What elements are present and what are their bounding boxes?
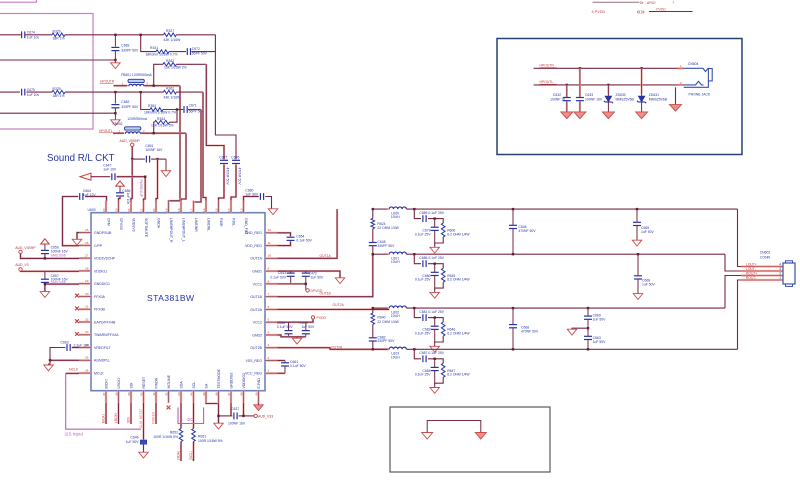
resistor R342 [163, 63, 176, 67]
node junction row3 C682 [114, 91, 116, 93]
svg-text:38: 38 [114, 392, 118, 396]
svg-text:0.1uF 25V: 0.1uF 25V [415, 233, 431, 237]
capacitor C680 [434, 264, 436, 272]
wire AUD_V3 to pin28 [21, 270, 80, 272]
svg-text:14: 14 [227, 208, 231, 212]
svg-text:C633: C633 [585, 93, 593, 97]
svg-text:GNDPSUB: GNDPSUB [94, 231, 112, 235]
svg-text:C685 0.1uF 25V: C685 0.1uF 25V [419, 211, 444, 215]
wire zobel2 upper [372, 308, 374, 313]
capacitor C657 [44, 271, 46, 279]
svg-text:C672: C672 [192, 47, 200, 51]
capacitor C472 [305, 271, 307, 272]
svg-text:I2S Input: I2S Input [65, 432, 84, 437]
capacitor C637 [233, 413, 235, 420]
capacitor C663 [587, 328, 589, 336]
svg-text:1: 1 [779, 276, 781, 280]
wire pin5 VCC2 row [278, 319, 314, 322]
node junction ZD630 [607, 84, 609, 86]
wire tie to gnd [217, 403, 219, 423]
svg-text:330PF 50V: 330PF 50V [377, 339, 395, 343]
node junction ch4 zobel [372, 348, 374, 350]
capacitor C664 [79, 193, 81, 200]
svg-text:11: 11 [268, 241, 271, 245]
wire C664 to pin26 [63, 197, 80, 246]
wire riser LINEIN R net [215, 35, 236, 160]
IC pin 43 SDA [177, 381, 184, 403]
wire C651 right [151, 158, 166, 160]
wire ch2 filter mid [428, 264, 443, 269]
IC pin 22 VDD3V3 [127, 201, 136, 232]
svg-text:36: 36 [85, 368, 89, 372]
capacitor C682 [114, 92, 116, 104]
spare gnd block border [390, 407, 550, 472]
svg-text:MCLK: MCLK [69, 368, 79, 372]
wire zobel mid [372, 229, 374, 243]
svg-text:LINEINR: LINEINR [194, 218, 198, 232]
wire HPOUTL riser to pin18 [181, 133, 186, 201]
svg-text:31: 31 [85, 305, 89, 309]
svg-text:GNDDIG2: GNDDIG2 [229, 373, 233, 389]
svg-text:CONN: CONN [760, 256, 771, 260]
ground row4 [114, 113, 116, 120]
svg-text:PWREN: PWREN [152, 411, 156, 424]
IC pin 26 C/PP [79, 241, 103, 248]
connector pin ROUT+ [741, 272, 783, 276]
resistor R362 [163, 90, 176, 94]
wire I2S bus MCLK drop [66, 373, 141, 429]
wire ch3 filter bottom [435, 336, 444, 346]
svg-text:LINEHPOUT_R: LINEHPOUT_R [169, 218, 173, 243]
svg-text:R651: R651 [198, 435, 206, 439]
node junction row1 C683 [114, 34, 116, 36]
ground ch3 filter [430, 346, 440, 352]
svg-text:AUD_V3SHP: AUD_V3SHP [15, 246, 36, 250]
svg-text:20: 20 [152, 208, 156, 212]
svg-text:SDI: SDI [129, 383, 133, 389]
IC pin 30 FFX0A [79, 292, 106, 299]
ground ZD630 [602, 112, 614, 119]
wire spare gnd bracket [427, 421, 481, 433]
svg-text:MMSZ5V6B: MMSZ5V6B [616, 98, 635, 102]
wire AUD_V5SHP stem [131, 147, 133, 160]
resistor R341 [156, 50, 169, 54]
wire R344 to FB602 riser [153, 122, 156, 133]
svg-text:1uF 50V: 1uF 50V [126, 440, 140, 444]
wire pin1 row [278, 372, 286, 374]
wire pin2 row [278, 359, 286, 361]
IC pin 16 LINEINL [202, 201, 211, 232]
node junction C666 top [512, 307, 514, 309]
svg-text:«»: «» [637, 7, 645, 16]
svg-text:AUD_V33: AUD_V33 [258, 414, 273, 418]
ground C665 [632, 240, 642, 246]
wire HPOUTR jack [534, 67, 684, 69]
svg-text:F30R: F30R [219, 218, 223, 227]
ground spare right [475, 433, 486, 440]
wire HPOUTR to FB601 [114, 85, 128, 87]
svg-text:R652: R652 [170, 431, 178, 435]
svg-text:PWRDN/UP: PWRDN/UP [139, 180, 143, 197]
svg-text:8: 8 [268, 279, 270, 283]
svg-text:VDDIG1: VDDIG1 [94, 269, 107, 273]
svg-text:2: 2 [268, 356, 270, 360]
capacitor C673 [305, 322, 307, 330]
capacitor C674 [21, 31, 23, 38]
wire AUD_V3SHP to pin27 [21, 254, 80, 259]
resistor R645 [441, 268, 445, 282]
capacitor C683 [114, 35, 116, 47]
node junction ch3 shunt [434, 316, 436, 318]
wire FB602 pin2 [141, 132, 186, 134]
wire E-PAD gnd stem [257, 403, 259, 405]
svg-text:LOUT+: LOUT+ [746, 263, 757, 267]
no-connect pin30 [75, 294, 79, 298]
inductor L602 [389, 306, 406, 308]
wire C677 to pin15 [219, 164, 225, 200]
capacitor C682 (zobel) [369, 337, 377, 339]
wire BICKI signal [105, 403, 107, 424]
IC pin 34 VREDFILT [79, 343, 112, 350]
wire LRCKI signal [117, 403, 119, 424]
IC pin 17 LINEINR [189, 201, 198, 233]
svg-text:43K 1/16W: 43K 1/16W [164, 38, 182, 42]
ferrite bead FB602 [125, 127, 141, 130]
ground C632 [561, 112, 573, 119]
capacitor C680 [259, 193, 261, 200]
wire ch1 to LOUT+ [738, 209, 742, 266]
IC pin 48 VDDDIG2 [239, 373, 246, 403]
svg-text:PHONE JACK: PHONE JACK [689, 92, 711, 96]
wire pin36 MCLK [66, 372, 79, 374]
phone jack block border [497, 39, 742, 155]
capacitor C651 [145, 156, 147, 163]
svg-text:R327: R327 [166, 29, 174, 33]
node junction ch3 zobel [372, 307, 374, 309]
svg-text:1: 1 [268, 369, 270, 373]
svg-text:VCC_REG: VCC_REG [245, 372, 262, 376]
capacitor C682 [434, 318, 436, 326]
wire GNDDIG2 drop [230, 403, 232, 416]
svg-text:1uF 50V: 1uF 50V [593, 318, 607, 322]
svg-text:100R 1/16W 5%: 100R 1/16W 5% [198, 439, 223, 443]
wire channel 4 inductor lead [373, 348, 389, 350]
svg-text:R325: R325 [53, 87, 61, 91]
svg-text:LINEINL: LINEINL [206, 218, 210, 231]
wire riser GNDA pin20 [156, 159, 158, 201]
wire FB601 riser to R342 [154, 64, 163, 85]
wire R327 to riser [176, 34, 215, 36]
wire C680 to gnd [265, 197, 271, 209]
capacitor C685 [422, 215, 424, 222]
svg-text:HPOUTL: HPOUTL [99, 129, 113, 133]
svg-text:16: 16 [202, 208, 206, 212]
wire C637 right [239, 415, 254, 417]
svg-text:48: 48 [239, 392, 243, 396]
wire pin25 to gnd [77, 233, 79, 240]
svg-text:0.1uF 50V: 0.1uF 50V [296, 239, 312, 243]
svg-text:R341: R341 [150, 46, 158, 50]
IC pin 39 SDI [127, 383, 134, 403]
svg-text:VDD3V3: VDD3V3 [131, 218, 135, 232]
wire channel 3 main [406, 307, 725, 309]
wire ch1 filter mid [428, 219, 443, 224]
svg-text:ROUT-: ROUT- [746, 276, 756, 280]
node junction C663 bottom [587, 348, 589, 350]
svg-text:6.2 OHM 1/4W: 6.2 OHM 1/4W [447, 373, 470, 377]
wire SDA [180, 403, 182, 429]
svg-text:330PF 50V: 330PF 50V [121, 48, 139, 52]
svg-text:10UH: 10UH [391, 314, 400, 318]
capacitor C681 [422, 314, 424, 321]
svg-text:470NF 50V: 470NF 50V [521, 329, 539, 333]
svg-text:OUT2A: OUT2A [333, 303, 345, 307]
svg-text:12: 12 [268, 228, 272, 232]
svg-text:1uF 50V: 1uF 50V [302, 325, 316, 329]
wire SCL lower [192, 442, 194, 462]
svg-text:1uF 50V: 1uF 50V [642, 282, 656, 286]
IC pin 47 GNDDIG2 [227, 373, 234, 403]
ground C657 [40, 292, 50, 298]
resistor R352 [150, 108, 163, 112]
svg-text:ARIO: ARIO [647, 1, 656, 5]
svg-text:22: 22 [127, 208, 131, 212]
svg-text:37: 37 [102, 392, 106, 396]
IC pin 13 GND_FILT [239, 201, 248, 236]
capacitor C687 [422, 355, 424, 362]
IC pin 11 VDD_REG [245, 241, 277, 248]
IC pin 27 VDD3V3CHP [79, 254, 116, 261]
node junction ch1 filter [413, 208, 415, 210]
capacitor C633 [579, 68, 581, 97]
capacitor C654 [287, 236, 295, 238]
IC pin 6 OUT2A [250, 305, 277, 312]
svg-text:C676: C676 [231, 155, 239, 159]
svg-text:OUT1A: OUT1A [250, 257, 262, 261]
wire SCL [192, 403, 194, 429]
capacitor C648 [369, 242, 377, 244]
wire R342 to riser [176, 63, 206, 65]
svg-text:18R 1%: 18R 1% [53, 94, 65, 98]
IC pin 3 OUT2B [250, 343, 277, 350]
svg-text:AGNDPLL: AGNDPLL [94, 359, 110, 363]
node junction row2 [114, 59, 116, 61]
svg-text:13K 1/16W 5%: 13K 1/16W 5% [151, 123, 174, 127]
wire jack sleeve gnd [675, 87, 677, 104]
connector CN602 body [786, 261, 793, 263]
svg-text:R352: R352 [148, 104, 156, 108]
ground ch1 filter [430, 247, 440, 253]
capacitor C672 [186, 48, 188, 55]
wire zobel2 lower [372, 341, 374, 349]
svg-text:AUD_V3: AUD_V3 [15, 263, 28, 267]
svg-text:VREDFILT: VREDFILT [94, 346, 112, 350]
svg-text:43: 43 [177, 392, 181, 396]
svg-text:AUD_RESET: AUD_RESET [139, 408, 143, 428]
svg-text:24: 24 [102, 208, 106, 212]
svg-text:0.1uF 25V: 0.1uF 25V [415, 278, 431, 282]
node junction C646 bottom [512, 253, 514, 255]
svg-text:44: 44 [189, 392, 193, 396]
ground ZD631 [636, 112, 648, 119]
wire PVDD off-page [649, 11, 693, 13]
wire riser R342 net [206, 64, 224, 159]
svg-text:C681 0.1uF 25V: C681 0.1uF 25V [419, 310, 444, 314]
IC pin 4 GND2 [252, 330, 277, 337]
svg-text:INTLINE: INTLINE [167, 374, 171, 388]
wire ch2 to LOUT- [725, 254, 741, 271]
wire ch4 filter bottom [435, 377, 444, 387]
svg-text:PWDN: PWDN [154, 377, 158, 388]
svg-text:6.2 OHM 1/4W: 6.2 OHM 1/4W [447, 278, 470, 282]
wire C674 to R326 [27, 34, 53, 36]
resistor R652 [179, 429, 183, 442]
svg-text:41: 41 [152, 392, 156, 396]
ground ch2 filter [430, 292, 440, 298]
svg-text:SCL: SCL [192, 382, 196, 389]
IC pin 41 PWDN [152, 377, 159, 402]
svg-text:46: 46 [214, 392, 218, 396]
power net DPVDD [306, 289, 309, 292]
wire ch4 filter mid [428, 359, 443, 364]
IC pin 44 SCL [189, 382, 196, 403]
svg-text:HPOUTR: HPOUTR [540, 64, 555, 68]
svg-text:1uF 50V: 1uF 50V [641, 230, 655, 234]
ground PVDD caps [292, 338, 302, 344]
connector CN604 phone jack [677, 67, 684, 69]
wire row2 (gnd return) [0, 59, 115, 61]
svg-text:C687 0.1uF 25V: C687 0.1uF 25V [419, 351, 444, 355]
IC pin 49 E-PAD [254, 378, 261, 403]
svg-text:OUT1A: OUT1A [320, 254, 332, 258]
svg-text:25: 25 [85, 228, 89, 232]
capacitor C643 [290, 271, 292, 272]
IC pin 20 GNDA [152, 201, 161, 229]
svg-text:C683: C683 [121, 44, 129, 48]
I2C bus bracket [178, 408, 204, 424]
no-connect pin31 [75, 307, 79, 311]
capacitor C686 [116, 192, 124, 194]
svg-text:330PF 50V: 330PF 50V [121, 105, 139, 109]
IC pin 29 GNDDIG1 [79, 279, 110, 286]
wire riser R362 to pin16 [203, 92, 206, 201]
svg-text:MCLK: MCLK [94, 371, 104, 375]
node junction ch2 shunt [434, 263, 436, 265]
svg-text:0.1uF 50V: 0.1uF 50V [290, 364, 306, 368]
svg-text:TESTMODE: TESTMODE [217, 368, 221, 388]
svg-text:VCC1: VCC1 [253, 282, 262, 286]
IC pin 14 F30L [227, 201, 236, 226]
svg-text:30: 30 [85, 292, 89, 296]
node junction C632 [566, 84, 568, 86]
IC pin 1 VCC_REG [245, 369, 277, 376]
svg-text:1: 1 [122, 82, 124, 86]
svg-text:17: 17 [189, 208, 193, 212]
inductor L600 [389, 207, 406, 209]
svg-text:1uF 12V: 1uF 12V [83, 193, 97, 197]
svg-text:HPOUTL: HPOUTL [540, 80, 554, 84]
wire channel 2 inductor lead [373, 253, 389, 255]
svg-text:26: 26 [85, 241, 89, 245]
svg-text:SDI: SDI [127, 417, 131, 423]
wire AUD_RESET [142, 403, 144, 440]
wire channel 3 inductor lead [373, 307, 389, 309]
capacitor C676 [232, 159, 240, 161]
svg-text:1uF 10v: 1uF 10v [126, 193, 130, 205]
wire HPOUTR riser to pin19 [169, 86, 181, 201]
inductor L601 [389, 252, 406, 254]
svg-text:1uF 50V: 1uF 50V [593, 340, 607, 344]
power arrow pin23 net [116, 181, 125, 186]
wire zobel lower [372, 246, 374, 254]
svg-text:VDD_REG: VDD_REG [245, 244, 262, 248]
ground C680 [268, 209, 278, 215]
capacitor C661 [284, 361, 286, 363]
capacitor C647 [111, 173, 113, 180]
wire C656 stem [44, 254, 46, 259]
svg-text:EAPD/FFX4B: EAPD/FFX4B [94, 320, 116, 324]
svg-text:330PF 50V: 330PF 50V [377, 244, 395, 248]
svg-text:4: 4 [268, 330, 270, 334]
svg-text:47: 47 [227, 392, 231, 396]
wire riser VDD3V3 pin22 [131, 159, 132, 201]
capacitor C668 [637, 254, 639, 275]
node junction C647 [144, 176, 146, 178]
svg-text:56PF 50V: 56PF 50V [192, 52, 208, 56]
pink I2S source block border [0, 14, 93, 130]
wire C646 to gnd [143, 444, 145, 452]
ground phone jack [670, 105, 682, 112]
connector pin ROUT- [741, 276, 783, 280]
svg-text:5: 5 [268, 318, 270, 322]
node junction C668 [637, 253, 639, 255]
IC pin 31 FFX0B [79, 305, 106, 312]
svg-text:10: 10 [268, 254, 272, 258]
capacitor C675 [21, 89, 23, 96]
wire pin4 GND2 row [278, 335, 306, 337]
wire C662 to gnd node [50, 348, 65, 361]
ground pin25 GNDPSUB [72, 239, 82, 245]
wire R326 to R327 [65, 34, 163, 36]
svg-text:100NF 16: 100NF 16 [550, 98, 565, 102]
node junction row1 branch [140, 34, 142, 36]
svg-text:CN602: CN602 [760, 251, 771, 255]
svg-text:7: 7 [672, 1, 674, 5]
svg-text:I2C: I2C [187, 417, 194, 422]
svg-text:18Kohm 1/16W 0.7%: 18Kohm 1/16W 0.7% [144, 110, 176, 114]
svg-text:1uF 10v: 1uF 10v [27, 36, 40, 40]
resistor R624 [371, 218, 375, 228]
IC pin 38 LRCKI [114, 378, 121, 403]
node junction C646 top [512, 208, 514, 210]
wire ch2 filter branch [414, 254, 421, 264]
node junction C651 [156, 158, 158, 160]
node junction C657 [44, 283, 46, 285]
svg-text:GNDDIG1: GNDDIG1 [94, 282, 110, 286]
svg-text:3: 3 [268, 343, 270, 347]
capacitor C646 (reset) [140, 440, 146, 444]
wire pin35 row [50, 359, 79, 361]
IC pin 45 SA [202, 383, 209, 403]
svg-text:C677: C677 [219, 155, 227, 159]
wire net L-in row3 [0, 91, 20, 93]
wire C676 to pin14 [231, 164, 236, 200]
svg-text:SMD1608: SMD1608 [51, 254, 66, 258]
wire OUT2A [278, 308, 390, 310]
svg-text:2: 2 [779, 272, 781, 276]
node junction pin35 [49, 359, 51, 361]
capacitor C663 (vredfilt) [66, 344, 68, 351]
